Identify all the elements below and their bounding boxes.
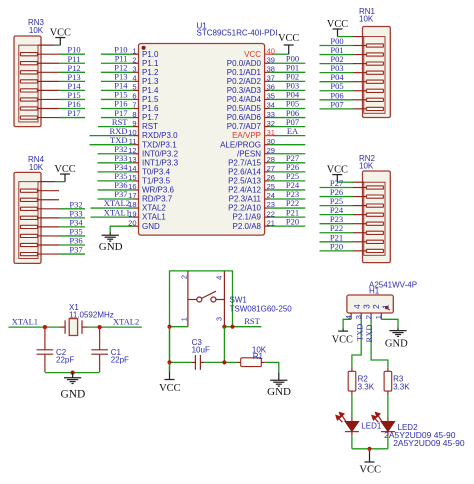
svg-text:3: 3 xyxy=(215,317,224,321)
ground (H1 pin 1) xyxy=(389,331,406,337)
wire VCC rail xyxy=(352,448,388,450)
svg-text:P0.7/AD7: P0.7/AD7 xyxy=(227,122,262,131)
resistor RN1 element 5 xyxy=(353,80,383,83)
R3 designator xyxy=(393,374,404,383)
wire (unconnected pin stub) xyxy=(270,144,306,146)
resistor RN3 element 1 xyxy=(20,53,59,56)
svg-text:VCC: VCC xyxy=(359,464,381,475)
wire net P06 xyxy=(320,99,354,101)
pin 39 (P0.0/AD0) xyxy=(227,56,275,68)
node net label P12 xyxy=(114,63,127,73)
svg-text:LED1: LED1 xyxy=(361,422,382,431)
pin 32 (P0.7/AD7) xyxy=(227,119,275,131)
node net label P25 xyxy=(330,196,343,206)
svg-text:10uF: 10uF xyxy=(192,345,210,354)
resistor R3 xyxy=(384,371,392,391)
node net label P05 xyxy=(286,99,299,109)
R2 value 3.3K xyxy=(358,383,375,392)
LED2 value 2A5Y2UD09 45-90 xyxy=(393,438,465,448)
node net label P20 xyxy=(286,216,299,226)
resistor network RN1 body xyxy=(363,27,391,118)
svg-text:P07: P07 xyxy=(330,99,343,109)
wire net P17 xyxy=(59,117,85,119)
node net label RXD (vertical) xyxy=(364,325,374,343)
wire VCC from pin 40 xyxy=(274,45,289,54)
ground (R1) xyxy=(270,380,287,386)
resistor RN1 element 3 xyxy=(353,62,383,65)
X1 designator xyxy=(69,303,79,312)
svg-text:RST: RST xyxy=(142,122,158,131)
svg-text:P2.3/A11: P2.3/A11 xyxy=(229,195,262,204)
svg-text:3.3K: 3.3K xyxy=(358,383,375,392)
power VCC (H1 pin 4) xyxy=(338,330,348,332)
wire C1 top xyxy=(99,327,101,350)
wire net P33 xyxy=(59,217,85,219)
wire net RXD xyxy=(90,135,134,137)
resistor RN1 element 7 xyxy=(353,98,383,101)
wire net P26 xyxy=(270,171,306,173)
wire XTAL1 xyxy=(8,326,65,328)
svg-text:XTAL2: XTAL2 xyxy=(142,204,166,213)
node net label P26 xyxy=(330,187,343,197)
node net label P14 xyxy=(67,81,81,91)
node net label P27 xyxy=(286,153,299,163)
C1 designator xyxy=(111,348,122,357)
capacitor C2 xyxy=(37,350,54,354)
svg-text:P37: P37 xyxy=(69,245,82,255)
wire net P16 xyxy=(101,108,134,110)
svg-text:INT0/P3.2: INT0/P3.2 xyxy=(142,149,179,158)
svg-text:P0.2/AD2: P0.2/AD2 xyxy=(227,77,262,86)
svg-text:VCC: VCC xyxy=(54,164,75,175)
wire net P03 xyxy=(270,89,306,91)
power label VCC xyxy=(159,383,181,394)
wire net P12 xyxy=(59,71,85,73)
wire net P26 xyxy=(320,196,354,198)
wire net RST xyxy=(98,126,134,128)
node net label P24 xyxy=(286,180,300,190)
wire net P04 xyxy=(320,81,354,83)
node net label P04 xyxy=(286,90,300,100)
wire net P32 xyxy=(98,153,134,155)
node junction xyxy=(230,325,234,329)
wire net P34 xyxy=(59,226,85,228)
svg-text:11.0592MHz: 11.0592MHz xyxy=(69,310,114,319)
wire (unconnected pin stub) xyxy=(270,153,306,155)
pin 26 (P2.5/A13) xyxy=(228,173,275,185)
node net label P01 xyxy=(330,45,343,55)
wire net P00 xyxy=(270,62,306,64)
resistor RN4 element 8 xyxy=(20,253,59,256)
wire net P37 xyxy=(98,198,134,200)
svg-text:VCC: VCC xyxy=(50,28,71,39)
svg-text:VCC: VCC xyxy=(327,19,348,30)
node net label P00 xyxy=(286,54,299,64)
power label VCC xyxy=(359,464,381,475)
pin 30 (ALE/PROG) xyxy=(220,137,275,149)
wire net P00 xyxy=(320,45,354,47)
resistor RN4 element 7 xyxy=(20,243,59,246)
svg-text:P2.6/A14: P2.6/A14 xyxy=(228,168,261,177)
resistor RN2 element 2 xyxy=(353,195,383,198)
wire net P10 xyxy=(101,53,134,55)
wire net XTAL2 xyxy=(91,207,134,209)
node net label P24 xyxy=(330,205,344,215)
pin 3 (P1.2) xyxy=(132,65,159,77)
wire net P07 xyxy=(270,126,306,128)
svg-text:2: 2 xyxy=(371,304,381,309)
pin 5 (P1.4) xyxy=(132,83,159,95)
svg-text:T0/P3.4: T0/P3.4 xyxy=(142,168,171,177)
svg-text:3: 3 xyxy=(362,304,372,309)
svg-text:P0.5/AD5: P0.5/AD5 xyxy=(227,104,262,113)
node net label P17 xyxy=(114,108,127,118)
resistor RN1 element 8 xyxy=(353,107,383,110)
wire H1 pin1 to GND xyxy=(381,319,398,330)
wire net P02 xyxy=(320,63,354,65)
node net label P17 xyxy=(67,108,80,118)
wire net P11 xyxy=(101,62,134,64)
C3 designator xyxy=(192,338,203,347)
wire VCC stem xyxy=(369,449,371,462)
wire net P16 xyxy=(59,108,85,110)
RN4 designator xyxy=(28,155,45,164)
svg-text:2A5Y2UD09 45-90: 2A5Y2UD09 45-90 xyxy=(393,438,465,448)
node junction xyxy=(71,371,75,375)
resistor R2 xyxy=(348,371,356,391)
pin 38 (P0.1/AD1) xyxy=(227,65,275,77)
wire LED2 to rail xyxy=(387,431,389,448)
node net label XTAL2 xyxy=(104,198,130,208)
resistor RN3 element 4 xyxy=(20,80,59,83)
wire net P01 xyxy=(320,54,354,56)
pin 6 (P1.5) xyxy=(132,92,159,104)
node net label P05 xyxy=(330,81,343,91)
resistor RN2 element 8 xyxy=(353,249,383,252)
LED LED2 xyxy=(381,421,395,431)
wire C2 bottom xyxy=(44,354,46,372)
LED2 emission arrows xyxy=(372,413,382,423)
svg-text:VCC: VCC xyxy=(159,383,181,394)
capacitor C3 xyxy=(195,355,200,370)
node net label EA xyxy=(287,126,299,136)
svg-text:P0.1/AD1: P0.1/AD1 xyxy=(227,68,262,77)
resistor RN3 element 3 xyxy=(20,71,59,74)
node net label P02 xyxy=(330,54,343,64)
node net label P13 xyxy=(67,72,80,82)
svg-text:GND: GND xyxy=(385,339,408,350)
RN2 value 10K xyxy=(359,161,374,170)
svg-text:H1: H1 xyxy=(369,286,380,295)
pin 37 (P0.2/AD2) xyxy=(227,74,275,86)
node net label P15 xyxy=(67,90,80,100)
svg-text:/PESN: /PESN xyxy=(237,149,261,158)
svg-text:2: 2 xyxy=(180,275,189,279)
node net label RST xyxy=(244,316,260,326)
H1 pin number 2 xyxy=(364,315,373,319)
wire VCC rail bottom xyxy=(170,327,196,363)
ground (crystal) xyxy=(64,378,81,384)
node net label XTAL1 xyxy=(104,207,130,217)
RN4 value 10K xyxy=(29,163,44,172)
wire net P27 xyxy=(320,187,354,189)
resistor network RN2 body xyxy=(363,171,391,263)
switch SW1 xyxy=(188,271,225,327)
svg-text:RXD/P3.0: RXD/P3.0 xyxy=(142,131,178,140)
RN1 value 10K xyxy=(359,15,374,24)
wire net P10 xyxy=(59,53,85,55)
node net label P23 xyxy=(330,214,343,224)
pin 25 (P2.4/A12) xyxy=(228,182,275,194)
wire net P05 xyxy=(320,90,354,92)
R3 value 3.3K xyxy=(393,383,410,392)
connector H1 body xyxy=(347,295,393,313)
resistor RN3 element 7 xyxy=(20,107,59,110)
resistor RN3 element 6 xyxy=(20,98,59,101)
resistor RN2 element 5 xyxy=(353,222,383,225)
wire net P14 xyxy=(59,89,85,91)
svg-text:WR/P3.6: WR/P3.6 xyxy=(142,186,175,195)
svg-text:10K: 10K xyxy=(29,26,44,35)
resistor RN1 element 4 xyxy=(353,71,383,74)
wire GND from pin 20 xyxy=(110,226,133,235)
wire net P24 xyxy=(270,189,306,191)
pin 33 (P0.6/AD6) xyxy=(227,110,275,122)
wire net P17 xyxy=(101,117,134,119)
node net label P21 xyxy=(286,207,299,217)
resistor RN4 element 2 xyxy=(20,198,59,201)
C2 value 22pF xyxy=(56,356,74,365)
resistor RN4 element 3 xyxy=(20,207,59,210)
svg-text:P1.0: P1.0 xyxy=(142,50,159,59)
resistor network RN4 body xyxy=(14,172,41,263)
resistor RN1 element 1 xyxy=(353,44,383,47)
pin 27 (P2.6/A14) xyxy=(228,164,275,176)
svg-text:1: 1 xyxy=(180,317,189,321)
node net label P14 xyxy=(114,81,128,91)
power label VCC xyxy=(327,19,348,30)
svg-text:P2.7/A15: P2.7/A15 xyxy=(228,158,261,167)
RN1 designator xyxy=(359,7,376,16)
svg-text:22pF: 22pF xyxy=(111,356,129,365)
power VCC (RN2) xyxy=(332,174,342,176)
wire net P23 xyxy=(270,198,306,200)
pin 11 (TXD/P3.1) xyxy=(129,137,178,149)
crystal X1 xyxy=(65,319,82,336)
pin 22 (P2.1/A9) xyxy=(233,209,275,221)
ground label GND xyxy=(60,388,85,400)
svg-text:GND: GND xyxy=(99,241,123,253)
svg-text:3.3K: 3.3K xyxy=(393,383,410,392)
resistor network RN3 body xyxy=(14,36,41,127)
node junction xyxy=(98,325,102,329)
SW1 pin number 2 xyxy=(180,275,189,279)
C3 value 10uF xyxy=(192,345,210,354)
node net label P33 xyxy=(69,208,82,218)
LED2 designator xyxy=(398,423,419,432)
ground label GND xyxy=(267,386,291,398)
wire net P25 xyxy=(320,205,354,207)
LED1 designator xyxy=(361,422,382,431)
svg-text:XTAL1: XTAL1 xyxy=(142,213,166,222)
resistor RN2 element 1 xyxy=(353,186,383,189)
pin 2 (P1.1) xyxy=(132,56,159,68)
LED LED1 xyxy=(345,421,359,431)
power VCC (pin 40) xyxy=(284,44,294,46)
wire net P01 xyxy=(270,71,306,73)
wire R3 to LED2 xyxy=(387,391,389,421)
svg-text:P2.2/A10: P2.2/A10 xyxy=(228,204,261,213)
RN3 common pin wire to VCC xyxy=(38,38,60,46)
node net label P33 xyxy=(114,153,127,163)
svg-text:22pF: 22pF xyxy=(56,356,74,365)
wire VCC rail left xyxy=(170,271,233,372)
svg-text:RXD: RXD xyxy=(364,325,374,343)
svg-text:3: 3 xyxy=(354,315,363,319)
svg-text:P1.7: P1.7 xyxy=(142,113,159,122)
node junction xyxy=(167,360,171,364)
wire net P04 xyxy=(270,98,306,100)
svg-text:10K: 10K xyxy=(359,15,374,24)
svg-text:P2.5/A13: P2.5/A13 xyxy=(228,177,261,186)
power VCC (RN3) xyxy=(55,37,65,39)
pin 4 (P1.3) xyxy=(132,74,159,86)
SW1 value TSW081G60-250 xyxy=(230,305,293,314)
node net label P20 xyxy=(330,241,343,251)
node net label P16 xyxy=(114,99,127,109)
pin 7 (P1.6) xyxy=(132,101,159,113)
svg-text:P1.1: P1.1 xyxy=(142,59,159,68)
node net label XTAL1 xyxy=(12,317,38,327)
wire net P23 xyxy=(320,223,354,225)
wire net P06 xyxy=(270,117,306,119)
resistor RN2 element 3 xyxy=(353,204,383,207)
RN4 common pin wire to VCC xyxy=(38,174,65,182)
wire pin1 to VCC rail xyxy=(170,326,188,328)
wire net P20 xyxy=(320,250,354,252)
RN2 common pin wire to VCC xyxy=(337,175,364,183)
wire C2 top xyxy=(44,327,46,350)
svg-text:P2.0/A8: P2.0/A8 xyxy=(233,222,262,231)
node net label P06 xyxy=(286,108,299,118)
svg-text:P0.0/AD0: P0.0/AD0 xyxy=(227,59,262,68)
wire to C3 rail xyxy=(223,327,225,363)
H1 pin number 3 xyxy=(354,315,363,319)
wire net XTAL1 xyxy=(91,216,134,218)
pin 1 (P1.0) xyxy=(132,46,159,58)
power VCC (LEDs) xyxy=(365,461,375,463)
svg-text:P0.3/AD3: P0.3/AD3 xyxy=(227,86,262,95)
node net label P16 xyxy=(67,99,80,109)
resistor RN4 element 1 xyxy=(20,189,59,192)
pin 8 (P1.7) xyxy=(132,110,159,122)
node net label P35 xyxy=(114,171,127,181)
svg-text:GND: GND xyxy=(60,388,85,400)
node net label XTAL2 xyxy=(113,317,139,327)
svg-text:P1.2: P1.2 xyxy=(142,68,159,77)
svg-text:P1.4: P1.4 xyxy=(142,86,159,95)
wire net P25 xyxy=(270,180,306,182)
resistor RN4 element 5 xyxy=(20,225,59,228)
node net label P10 xyxy=(114,44,127,54)
node net label P12 xyxy=(67,63,80,73)
pin 34 (P0.5/AD5) xyxy=(227,101,275,113)
svg-text:TSW081G60-250: TSW081G60-250 xyxy=(230,305,293,314)
power label VCC xyxy=(327,165,348,176)
node net label P37 xyxy=(69,245,82,255)
svg-text:XTAL1: XTAL1 xyxy=(12,317,38,327)
node net label P00 xyxy=(330,36,343,46)
power label VCC xyxy=(332,334,353,345)
svg-text:XTAL2: XTAL2 xyxy=(113,317,139,327)
svg-text:P20: P20 xyxy=(330,241,343,251)
node net label P22 xyxy=(286,198,299,208)
ground (U1 pin 20) xyxy=(102,235,119,241)
wire net P14 xyxy=(101,89,134,91)
svg-text:ALE/PROG: ALE/PROG xyxy=(220,140,261,149)
resistor RN4 element 6 xyxy=(20,234,59,237)
svg-text:P0.6/AD6: P0.6/AD6 xyxy=(227,113,262,122)
pin 24 (P2.3/A11) xyxy=(229,191,275,203)
resistor RN2 element 4 xyxy=(353,213,383,216)
node net label P06 xyxy=(330,90,343,100)
node net label P23 xyxy=(286,189,299,199)
svg-text:10K: 10K xyxy=(359,161,374,170)
H1 pin1 marker xyxy=(385,306,390,310)
R1 value 10K xyxy=(252,345,267,354)
svg-text:VCC: VCC xyxy=(332,334,353,345)
wire gnd stem xyxy=(72,373,74,378)
svg-text:P1.5: P1.5 xyxy=(142,95,159,104)
svg-text:4: 4 xyxy=(352,304,362,309)
svg-text:INT1/P3.3: INT1/P3.3 xyxy=(142,158,179,167)
wire net P21 xyxy=(270,216,306,218)
node net label P32 xyxy=(69,199,82,209)
H1 pin number 1 xyxy=(374,315,383,319)
node net label P34 xyxy=(69,217,83,227)
resistor RN1 element 2 xyxy=(353,53,383,56)
node net label P35 xyxy=(69,226,82,236)
wire net P11 xyxy=(59,62,85,64)
RN1 common pin wire to VCC xyxy=(338,29,364,37)
pin 20 (GND) xyxy=(128,218,160,230)
wire net P13 xyxy=(101,80,134,82)
H1 pin name 4 xyxy=(352,304,362,309)
power label VCC xyxy=(54,164,75,175)
node net label P22 xyxy=(330,223,343,233)
IC U1 body (STC89C51RC-40I-PDI microcontroller) xyxy=(139,44,265,236)
wire net P22 xyxy=(270,207,306,209)
node net label P11 xyxy=(68,54,81,64)
R2 designator xyxy=(358,374,369,383)
wire RXD xyxy=(371,319,388,371)
node net label P34 xyxy=(114,162,128,172)
node net label P11 xyxy=(115,54,128,64)
node net label P03 xyxy=(330,63,343,73)
node net label P07 xyxy=(286,117,299,127)
svg-text:STC89C51RC-40I-PDI: STC89C51RC-40I-PDI xyxy=(197,28,278,37)
pin 15 (T1/P3.5) xyxy=(128,173,170,185)
node junction xyxy=(43,325,47,329)
svg-text:T1/P3.5: T1/P3.5 xyxy=(142,177,171,186)
pin 9 (RST) xyxy=(132,119,158,131)
node net label RST xyxy=(112,117,128,127)
SW1 pin number 4 xyxy=(215,276,224,280)
capacitor C1 xyxy=(91,350,108,354)
U1 value STC89C51RC-40I-PDI xyxy=(197,28,278,37)
wire net P22 xyxy=(320,232,354,234)
node net label P37 xyxy=(114,189,127,199)
